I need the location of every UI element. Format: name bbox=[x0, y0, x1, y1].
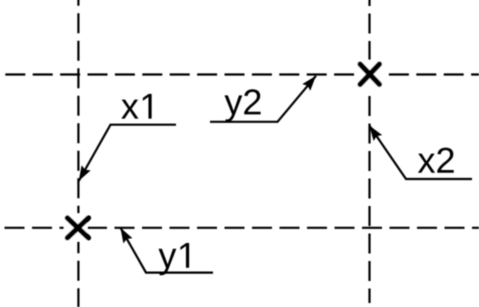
arrowhead x2 bbox=[369, 126, 382, 141]
leader line y1 bbox=[120, 228, 213, 273]
leader line y2 bbox=[210, 76, 316, 122]
node X marker at (x2,y2) bbox=[360, 64, 379, 84]
wire top horizontal dashed construction line (y2 level) bbox=[5, 73, 479, 75]
wire right vertical dashed construction line (x2 level) bbox=[368, 0, 370, 303]
node X marker at (x1,y1) bbox=[67, 218, 88, 238]
node marker halo (x1,y1) bbox=[64, 214, 88, 242]
label text "x2" bbox=[418, 154, 435, 173]
arrowhead y2 bbox=[302, 76, 316, 91]
wire bottom horizontal dashed construction line (y1 level) bbox=[5, 227, 479, 229]
node marker halo (x2,y2) bbox=[356, 60, 384, 90]
leader line x2 bbox=[369, 126, 472, 180]
label text "y2" bbox=[224, 95, 242, 121]
label text "y1" bbox=[158, 249, 176, 275]
arrowhead y1 bbox=[120, 228, 132, 244]
label text "x1" bbox=[121, 100, 138, 119]
arrowhead x1 bbox=[79, 165, 91, 181]
leader line x1 bbox=[79, 125, 176, 181]
wire left vertical dashed construction line (x1 level) bbox=[77, 0, 79, 307]
